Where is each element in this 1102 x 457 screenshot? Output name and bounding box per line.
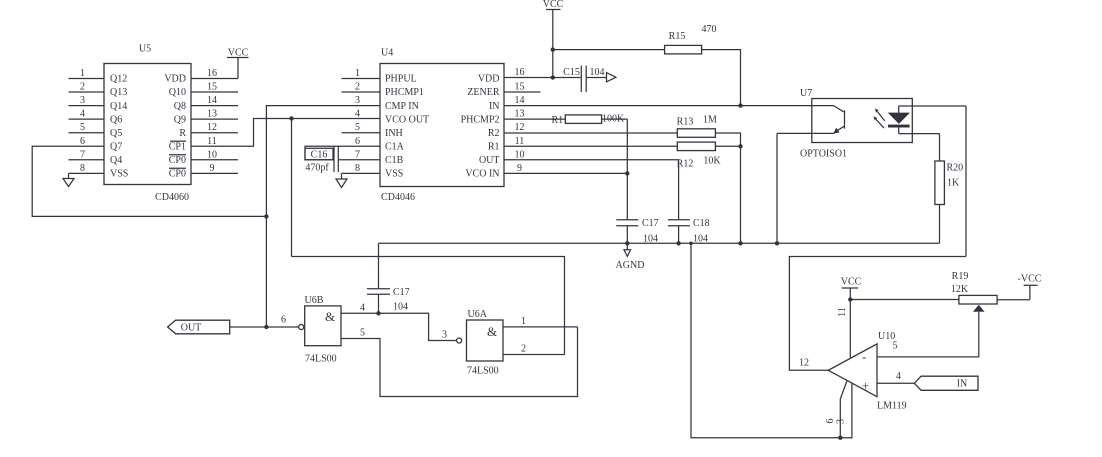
svg-text:Q8: Q8 bbox=[174, 101, 186, 112]
svg-text:VSS: VSS bbox=[110, 169, 128, 180]
svg-text:R15: R15 bbox=[669, 31, 686, 42]
IN net flag bbox=[914, 376, 978, 390]
svg-text:15: 15 bbox=[515, 82, 525, 93]
svg-text:R19: R19 bbox=[952, 271, 969, 282]
svg-text:4: 4 bbox=[80, 109, 85, 120]
svg-text:10: 10 bbox=[515, 149, 525, 160]
svg-text:6: 6 bbox=[80, 136, 85, 147]
svg-text:U6A: U6A bbox=[468, 309, 488, 320]
svg-text:CD4060: CD4060 bbox=[155, 192, 189, 203]
wire VCC to R15 bbox=[553, 49, 665, 51]
svg-text:Q12: Q12 bbox=[110, 74, 127, 85]
svg-text:R13: R13 bbox=[677, 117, 694, 128]
U7 light arrow 2 bbox=[874, 116, 885, 128]
wire R15 down to IN line bbox=[702, 50, 741, 106]
svg-text:2: 2 bbox=[80, 82, 85, 93]
svg-text:Q14: Q14 bbox=[110, 101, 127, 112]
svg-text:Q6: Q6 bbox=[110, 114, 122, 125]
svg-text:&: & bbox=[487, 324, 497, 339]
wire U7 LED anode to comparator output line bbox=[899, 106, 966, 257]
VCC symbol at U5 pin 16 bbox=[227, 48, 249, 79]
svg-text:9: 9 bbox=[517, 163, 522, 174]
svg-text:Q9: Q9 bbox=[174, 114, 186, 125]
U5 pin 11 wire to U4 pin 4 bbox=[191, 119, 380, 147]
svg-text:4: 4 bbox=[896, 371, 901, 382]
LM119 pin 6 wire bbox=[825, 381, 847, 438]
svg-text:1K: 1K bbox=[947, 178, 960, 189]
svg-text:14: 14 bbox=[515, 95, 525, 106]
svg-text:U4: U4 bbox=[381, 48, 393, 59]
U5 pin 12 stub bbox=[191, 122, 238, 133]
U5 pin 1 stub bbox=[69, 68, 105, 79]
IC U5 CD4060 body bbox=[104, 44, 191, 204]
resistor R12 10K bbox=[677, 142, 741, 169]
svg-text:OUT: OUT bbox=[479, 155, 500, 166]
-VCC symbol bbox=[1018, 274, 1042, 300]
svg-text:5: 5 bbox=[80, 122, 85, 133]
U5 pin 2 stub bbox=[69, 82, 105, 93]
svg-text:R: R bbox=[179, 128, 186, 139]
potentiometer R19 12K bbox=[850, 271, 1030, 304]
LM119 pin 11 label bbox=[837, 307, 848, 317]
svg-text:5: 5 bbox=[355, 122, 360, 133]
svg-text:6: 6 bbox=[355, 136, 360, 147]
comparator U10 LM119 bbox=[828, 331, 906, 412]
capacitor C17 104 (at U6B) bbox=[367, 243, 410, 313]
svg-text:3: 3 bbox=[442, 330, 447, 341]
svg-text:CP0: CP0 bbox=[169, 155, 186, 166]
wire U7 LED cathode to R20 bbox=[899, 134, 940, 161]
resistor R13 1M bbox=[677, 115, 741, 244]
U4 pin 16 lead bbox=[504, 67, 553, 78]
svg-text:PHCMP2: PHCMP2 bbox=[461, 114, 500, 125]
svg-text:C18: C18 bbox=[693, 218, 710, 229]
svg-text:VCC: VCC bbox=[841, 277, 862, 288]
svg-text:R1: R1 bbox=[552, 115, 564, 126]
LM119 pin 4 lead bbox=[877, 371, 914, 383]
LM119 pin 5 lead to pot wiper bbox=[877, 312, 979, 357]
svg-text:VDD: VDD bbox=[478, 74, 500, 85]
svg-text:1: 1 bbox=[355, 68, 360, 79]
U7 light arrow 1 bbox=[875, 108, 885, 121]
resistor R20 1K bbox=[935, 161, 963, 243]
svg-text:R2: R2 bbox=[488, 128, 500, 139]
svg-text:+: + bbox=[862, 378, 869, 393]
resistor R15 470 bbox=[665, 24, 717, 54]
svg-text:Q10: Q10 bbox=[169, 87, 186, 98]
svg-text:Q13: Q13 bbox=[110, 87, 127, 98]
svg-text:U5: U5 bbox=[139, 44, 151, 55]
svg-text:3: 3 bbox=[80, 95, 85, 106]
svg-text:8: 8 bbox=[355, 163, 360, 174]
svg-text:-: - bbox=[862, 349, 866, 364]
svg-text:104: 104 bbox=[590, 67, 605, 78]
svg-text:LM119: LM119 bbox=[877, 401, 907, 412]
U5 pin 13 stub bbox=[191, 109, 238, 120]
svg-text:11: 11 bbox=[837, 307, 848, 317]
svg-text:6: 6 bbox=[281, 315, 286, 326]
svg-text:1M: 1M bbox=[703, 115, 717, 126]
svg-text:OUT: OUT bbox=[181, 323, 202, 334]
svg-text:INH: INH bbox=[385, 128, 403, 139]
svg-text:VCO OUT: VCO OUT bbox=[385, 114, 429, 125]
U7 LED bbox=[888, 106, 910, 134]
svg-text:VDD: VDD bbox=[164, 74, 186, 85]
U4 pin 9 lead bbox=[504, 163, 627, 174]
wire AGND rail down to comparator low pins bbox=[691, 243, 852, 437]
U5 pin 9 stub bbox=[191, 163, 238, 174]
svg-text:VSS: VSS bbox=[385, 169, 403, 180]
U4 pin 6 wire to C16 bbox=[305, 136, 380, 160]
capacitor C16 bbox=[305, 147, 338, 174]
U4 pin 8 lead bbox=[342, 163, 381, 174]
NAND gate U6A 74LS00 bbox=[442, 309, 503, 377]
wire OUT to U6B output bbox=[230, 326, 299, 328]
pot wiper arrow bbox=[973, 305, 985, 312]
U4 pin 1 stub bbox=[342, 68, 381, 79]
svg-text:1: 1 bbox=[521, 316, 526, 327]
svg-text:15: 15 bbox=[207, 82, 217, 93]
svg-text:13: 13 bbox=[207, 109, 217, 120]
U5 pin 10 stub bbox=[191, 149, 238, 160]
svg-text:CP0: CP0 bbox=[169, 169, 186, 180]
U4 pin 7 stub bbox=[338, 149, 380, 160]
svg-text:74LS00: 74LS00 bbox=[305, 354, 337, 365]
svg-text:2: 2 bbox=[521, 344, 526, 355]
U5 pin 16 lead bbox=[191, 68, 238, 79]
svg-text:-VCC: -VCC bbox=[1018, 274, 1042, 285]
svg-text:3: 3 bbox=[355, 95, 360, 106]
svg-text:74LS00: 74LS00 bbox=[467, 366, 499, 377]
svg-text:CD4046: CD4046 bbox=[381, 192, 415, 203]
svg-text:C1B: C1B bbox=[385, 155, 404, 166]
ground under U4 pin 8 bbox=[336, 173, 347, 187]
capacitor C18 104 bbox=[668, 218, 710, 245]
svg-text:7: 7 bbox=[355, 149, 360, 160]
svg-text:14: 14 bbox=[207, 95, 217, 106]
U4 pin 3 label bbox=[355, 95, 360, 106]
ground under U5 pin 8 bbox=[63, 173, 74, 186]
svg-text:470pf: 470pf bbox=[305, 163, 329, 174]
svg-text:VCO IN: VCO IN bbox=[465, 169, 499, 180]
svg-text:12: 12 bbox=[207, 122, 217, 133]
svg-text:10K: 10K bbox=[703, 156, 721, 167]
svg-text:12: 12 bbox=[515, 122, 525, 133]
svg-text:2: 2 bbox=[355, 82, 360, 93]
VCC power symbol top bbox=[543, 0, 564, 78]
U5 pin 6 wire loop to node A bbox=[32, 136, 266, 217]
svg-text:R1: R1 bbox=[488, 142, 500, 153]
U4 pin 14 wire to U7 bbox=[504, 95, 812, 106]
wire VCO OUT feedback to U6A pin 2 bbox=[292, 257, 565, 355]
svg-text:C17: C17 bbox=[642, 218, 659, 229]
svg-text:R12: R12 bbox=[677, 159, 694, 170]
U4 pin 11 lead to R12 bbox=[504, 136, 677, 147]
U4 pin 5 stub bbox=[342, 122, 381, 133]
U5 pin 15 stub bbox=[191, 82, 238, 93]
svg-text:16: 16 bbox=[515, 67, 525, 78]
U6B pin 5 wire to U6A pin 1 bbox=[341, 327, 578, 397]
svg-text:6: 6 bbox=[825, 419, 836, 424]
svg-text:4: 4 bbox=[360, 303, 365, 314]
VCO OUT branch down bbox=[291, 119, 293, 257]
U7 phototransistor bbox=[812, 106, 845, 134]
svg-text:8: 8 bbox=[80, 163, 85, 174]
svg-text:VCC: VCC bbox=[228, 48, 249, 59]
U6B pin 4 wire to U6A input bbox=[341, 303, 457, 341]
U5 pin 14 stub bbox=[191, 95, 238, 106]
svg-text:104: 104 bbox=[393, 302, 408, 313]
resistor R14 100K bbox=[552, 114, 628, 127]
svg-text:CP1: CP1 bbox=[169, 142, 186, 153]
svg-text:VCC: VCC bbox=[543, 0, 564, 10]
svg-text:3: 3 bbox=[836, 419, 847, 424]
U4 pin 15 stub bbox=[504, 82, 541, 93]
IC U4 CD4046 body bbox=[380, 48, 504, 204]
node A vertical (Q7/CMP IN/NAND out net) bbox=[266, 106, 380, 327]
U4 pin 10 wire to C18 bbox=[504, 149, 679, 220]
wire R14 down to VCO IN node bbox=[626, 119, 628, 220]
U5 pin 7 stub bbox=[69, 149, 105, 160]
svg-text:16: 16 bbox=[207, 68, 217, 79]
svg-text:7: 7 bbox=[80, 149, 85, 160]
OUT net flag bbox=[168, 320, 230, 334]
svg-text:11: 11 bbox=[207, 136, 217, 147]
svg-text:R20: R20 bbox=[947, 163, 964, 174]
svg-text:U7: U7 bbox=[800, 88, 812, 99]
svg-text:10: 10 bbox=[207, 149, 217, 160]
svg-text:5: 5 bbox=[360, 328, 365, 339]
U6A pin 2 lead bbox=[503, 344, 565, 355]
U4 pin 12 lead to R13 bbox=[504, 122, 677, 133]
svg-text:C16: C16 bbox=[311, 150, 328, 161]
comparator output wire up and over to opto bbox=[789, 257, 966, 371]
svg-text:5: 5 bbox=[893, 341, 898, 352]
svg-text:13: 13 bbox=[515, 109, 525, 120]
capacitor C17 104 (loop filter) bbox=[616, 218, 658, 245]
svg-text:PHPUL: PHPUL bbox=[385, 74, 417, 85]
svg-text:11: 11 bbox=[515, 136, 525, 147]
svg-text:OPTOISO1: OPTOISO1 bbox=[800, 149, 847, 160]
NAND gate U6B 74LS00 bbox=[281, 295, 341, 365]
svg-text:C15: C15 bbox=[563, 67, 580, 78]
svg-text:12K: 12K bbox=[951, 284, 969, 295]
svg-text:9: 9 bbox=[210, 163, 215, 174]
svg-text:C17: C17 bbox=[393, 287, 410, 298]
U4 pin 2 stub bbox=[342, 82, 381, 93]
svg-text:470: 470 bbox=[702, 24, 717, 35]
svg-text:AGND: AGND bbox=[616, 260, 645, 271]
U5 pin 8 lead bbox=[69, 163, 105, 174]
optocoupler U7 OPTOISO1 body bbox=[800, 88, 912, 160]
wire U7 emitter to AGND rail bbox=[777, 133, 812, 243]
svg-text:&: & bbox=[325, 309, 335, 324]
LM119 pin 3 label bbox=[836, 419, 847, 424]
U5 pin 5 stub bbox=[69, 122, 105, 133]
U4 pin 4 label bbox=[355, 109, 360, 120]
svg-text:ZENER: ZENER bbox=[467, 87, 500, 98]
U5 pin 4 stub bbox=[69, 109, 105, 120]
svg-text:Q5: Q5 bbox=[110, 128, 122, 139]
U5 pin 3 stub bbox=[69, 95, 105, 106]
svg-text:C1A: C1A bbox=[385, 142, 405, 153]
svg-text:Q7: Q7 bbox=[110, 142, 122, 153]
VCC symbol at LM119 bbox=[841, 277, 862, 358]
svg-text:IN: IN bbox=[957, 379, 968, 390]
svg-text:IN: IN bbox=[489, 101, 500, 112]
capacitor C15 104 with arrow bbox=[553, 66, 616, 92]
AGND symbol bbox=[616, 243, 645, 271]
U6A pin 1 lead bbox=[503, 316, 578, 327]
svg-text:12: 12 bbox=[799, 358, 809, 369]
svg-text:CMP IN: CMP IN bbox=[385, 101, 419, 112]
svg-text:4: 4 bbox=[355, 109, 360, 120]
svg-text:Q4: Q4 bbox=[110, 155, 122, 166]
svg-text:PHCMP1: PHCMP1 bbox=[385, 87, 424, 98]
AGND rail bbox=[379, 242, 940, 244]
svg-text:U6B: U6B bbox=[305, 295, 324, 306]
svg-text:1: 1 bbox=[80, 68, 85, 79]
U4 pin 13 lead to R14 bbox=[504, 109, 565, 120]
